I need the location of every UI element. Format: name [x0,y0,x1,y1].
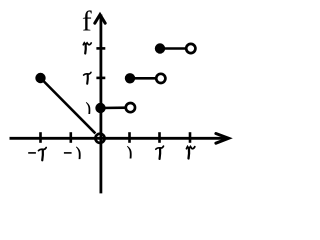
x label 3 digit ٣ [187,147,195,159]
y tick 2 [96,77,105,80]
x tick 2 [158,132,161,143]
step segment y=1 [101,106,126,109]
open circle at (2,2) [156,74,165,83]
open circle at (3,3) [186,44,195,53]
y label ١ [86,102,91,114]
step segment y=2 [130,77,156,80]
y label ٣ [83,43,91,54]
x label 2 digit ٢ [156,146,164,159]
filled dot at (0,1) [95,103,105,113]
x tick 1 [128,132,131,143]
x label -2 digit ٢ [39,148,47,161]
svg-text:f: f [82,6,92,38]
x-axis arrowhead [216,134,229,144]
y-axis [100,15,103,194]
open circle at (1,1) [126,103,135,112]
x tick -1 [70,132,73,143]
x label 1 digit ١ [127,146,132,159]
y-axis arrowhead [95,15,105,24]
diagonal segment from (-2,2) to origin [41,78,96,133]
step segment y=3 [160,47,186,50]
x tick 3 [189,132,192,143]
x tick -2 [39,132,42,143]
y tick 3 [96,47,105,50]
open circle at origin [95,134,104,143]
filled dot at (2,3) [155,43,165,53]
filled dot at (1,2) [125,73,135,83]
x label -2 minus [28,152,36,154]
x label -1 digit ١ [76,147,81,160]
y label ٢ [84,72,91,84]
x label -1 minus [64,152,72,154]
filled dot at (-2,2) [35,73,45,83]
x-axis [10,137,229,140]
